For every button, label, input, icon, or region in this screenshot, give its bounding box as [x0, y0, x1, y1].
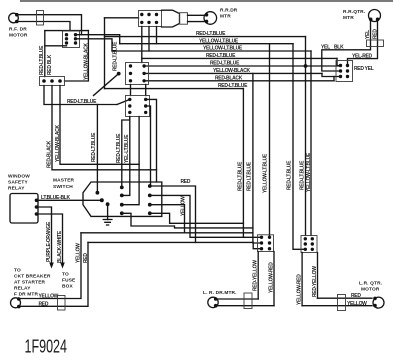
svg-text:YELLOW-RED: YELLOW-RED	[297, 274, 303, 305]
label TO FUSE BOX	[62, 272, 76, 290]
svg-text:RED: RED	[373, 29, 379, 39]
connector C4	[139, 11, 162, 27]
wire motor M1 top to junction	[17, 15, 82, 35]
svg-text:RED BLK: RED BLK	[47, 54, 53, 75]
wire RED from F DR MTR	[19, 242, 88, 306]
wire switch mid pin3 jog up	[122, 117, 139, 205]
connector C1	[63, 31, 80, 48]
inline connector on M4 wires	[244, 293, 252, 309]
wire C4 pin1 down to block A	[141, 27, 143, 63]
wire D1 out left RED-YELLOW	[257, 252, 259, 300]
svg-text:R.R.QTR.: R.R.QTR.	[343, 9, 365, 15]
motor M2 R.R. DR MTR	[188, 12, 217, 25]
wire C4 pin2 down to line3	[148, 27, 150, 52]
wire M5 top RED	[318, 297, 373, 299]
label R.R.QTR MTR	[343, 9, 365, 21]
svg-text:RED: RED	[181, 179, 191, 185]
wire line6 YELLOW-BLACK	[144, 72, 322, 74]
svg-text:RED-YELLOW: RED-YELLOW	[312, 266, 318, 297]
svg-text:1F9024: 1F9024	[25, 337, 68, 357]
svg-text:L.R. QTR.: L.R. QTR.	[359, 281, 382, 287]
wire BLACK-WHITE with arrow	[37, 214, 65, 269]
motor M4 L.R. DR MTR	[208, 297, 218, 307]
svg-text:RED-LT.BLUE: RED-LT.BLUE	[67, 99, 97, 105]
connector block C5	[336, 61, 353, 82]
master switch outline	[83, 182, 162, 216]
motor M1 R.F. DR MOTOR symbol	[9, 13, 19, 23]
wire YELLOW from F DR MTR	[19, 233, 81, 299]
label L.R. QTR. MOTOR	[359, 281, 382, 293]
relay pin 3	[35, 212, 39, 216]
svg-text:RED-LT.BLUE: RED-LT.BLUE	[238, 161, 244, 191]
svg-text:RED: RED	[39, 301, 49, 307]
fan wire from switch pin R3	[150, 205, 185, 233]
inline connector on M1 wires	[37, 11, 44, 26]
diagonal wire from line6 junction	[94, 74, 119, 96]
svg-text:RED: RED	[83, 253, 89, 263]
svg-text:MASTER: MASTER	[53, 178, 75, 184]
fan wire from switch pin R2	[150, 195, 244, 237]
svg-text:YELLOW: YELLOW	[181, 196, 187, 216]
connector block D2 bottom right	[301, 236, 317, 253]
svg-text:CKT BREAKER: CKT BREAKER	[14, 274, 51, 280]
svg-text:RED-LT.BLUE: RED-LT.BLUE	[300, 160, 306, 190]
diagonal wire to block B top pin	[117, 99, 130, 104]
wire line4 RED-LT.BLUE	[142, 57, 337, 59]
wire line4 drop to C5	[337, 58, 341, 65]
svg-text:AT STARTER: AT STARTER	[14, 280, 46, 286]
svg-text:YELLOW-LT.BLUE: YELLOW-LT.BLUE	[263, 153, 269, 193]
wire line7 RED-BLACK	[144, 80, 334, 82]
wire LT.BLUE-BLK	[37, 199, 102, 201]
junction dot line5/w305	[304, 64, 308, 68]
inline connector on F DR wires	[58, 296, 66, 311]
wire horizontal bus y30.6	[45, 30, 89, 32]
wire block B right mid down to switch	[146, 106, 151, 186]
wire PURPLE-ORANGE with arrow	[37, 207, 54, 269]
wire M6 YEL down	[322, 21, 371, 71]
relay pin 2	[35, 205, 39, 209]
wire long vertical w244 RED-LT.BLUE	[243, 89, 261, 238]
switch right column pins	[148, 184, 152, 215]
wire strip pin2 RED-BLACK down	[52, 86, 157, 170]
svg-text:SWITCH: SWITCH	[53, 184, 73, 190]
label R.R.DR MTR	[220, 8, 238, 20]
wire M4 top	[216, 298, 258, 300]
svg-text:RED-LT.BLUE: RED-LT.BLUE	[39, 45, 45, 75]
connector block B	[126, 96, 150, 117]
connector strip S1	[40, 77, 65, 86]
wire block B right top to vertical 156.5	[146, 99, 157, 182]
switch middle column pins	[120, 186, 124, 216]
wire line1 RED-LT.BLUE	[105, 36, 306, 38]
svg-text:R.F. DR: R.F. DR	[9, 27, 27, 33]
wire motor M1 bottom	[17, 22, 70, 31]
connector block D1 bottom center	[258, 235, 274, 252]
svg-text:RED YEL: RED YEL	[354, 66, 374, 72]
wire YELLOW horizontal run	[81, 232, 253, 234]
svg-text:YELLOW-LT.BLUE: YELLOW-LT.BLUE	[203, 46, 243, 52]
wire D1 out right YELLOW-RED	[273, 252, 275, 306]
switch pin L1	[96, 191, 100, 195]
svg-text:MTR: MTR	[343, 15, 354, 21]
wire switch mid pin to block B via jog	[122, 117, 130, 188]
border top line	[20, 0, 393, 2]
svg-text:RED-BLACK: RED-BLACK	[215, 75, 243, 81]
svg-text:F DR MTR: F DR MTR	[14, 292, 38, 298]
svg-text:YELLOW-BLACK: YELLOW-BLACK	[84, 42, 90, 80]
wire switch pin1 vertical RED-LT.BLUE	[96, 105, 98, 193]
wire C1 right mid stub to line3	[76, 39, 113, 51]
switch pin L3 with ground stem	[106, 202, 110, 206]
svg-text:MTR: MTR	[220, 14, 231, 20]
svg-text:TO: TO	[14, 268, 21, 274]
wire M4 bottom	[216, 305, 274, 307]
svg-text:MOTOR: MOTOR	[361, 287, 380, 293]
wire RED horizontal run	[88, 242, 262, 248]
label WINDOW SAFETY RELAY	[8, 174, 30, 192]
ground	[103, 204, 113, 225]
svg-text:YEL-LT.BLUE: YEL-LT.BLUE	[124, 134, 130, 163]
svg-text:RED-BLACK: RED-BLACK	[47, 140, 53, 168]
svg-text:RELAY: RELAY	[14, 286, 31, 292]
fan wire from switch pin R4	[150, 213, 244, 223]
wire block A to block B left	[130, 85, 132, 96]
svg-text:RED-LT.BLUE: RED-LT.BLUE	[206, 53, 236, 59]
wire RED-LT.BLUE vertical left	[44, 31, 46, 77]
svg-text:RED-LT.BLUE: RED-LT.BLUE	[116, 133, 122, 163]
svg-text:RED-LT.BLUE: RED-LT.BLUE	[196, 31, 226, 37]
svg-text:YELLOW: YELLOW	[39, 293, 59, 299]
wire D2 out right RED-YELLOW	[317, 253, 319, 299]
wire long vertical w293 RED-LT.BLUE	[293, 44, 305, 250]
svg-text:YELLOW-RED: YELLOW-RED	[269, 262, 275, 293]
svg-text:YELLOW: YELLOW	[76, 243, 82, 263]
svg-text:RED: RED	[351, 293, 361, 299]
svg-text:YEL-RED: YEL-RED	[352, 53, 373, 59]
wire line6 drop to C5	[322, 73, 341, 76]
node end of LT.BLUE-BLK	[100, 198, 104, 202]
svg-text:RED-YELLOW: RED-YELLOW	[253, 260, 259, 291]
svg-text:WINDOW: WINDOW	[8, 174, 30, 180]
wire block A to block B right	[145, 85, 147, 96]
fan wire from switch pin R1	[150, 186, 196, 242]
svg-text:SAFETY: SAFETY	[8, 180, 28, 186]
motor M5 L.R. QTR MOTOR	[373, 297, 384, 309]
inline connector on M6 wires	[367, 40, 384, 47]
svg-text:YELLOW-LT.BLUE: YELLOW-LT.BLUE	[306, 152, 312, 192]
svg-text:RELAY: RELAY	[8, 186, 25, 192]
svg-text:RED-LT.BLUE: RED-LT.BLUE	[287, 160, 293, 190]
wire YELLOW-BLACK vertical right of C1	[65, 31, 89, 81]
wire line3 YELLOW-LT.BLUE	[112, 50, 311, 52]
wire line7 end	[333, 77, 335, 81]
wire long vertical w252 RED-LT.BLUE	[253, 73, 262, 243]
svg-text:RED-LT.BLUE: RED-LT.BLUE	[210, 61, 240, 67]
svg-text:TO: TO	[62, 272, 69, 278]
svg-text:BLACK-WHITE: BLACK-WHITE	[57, 230, 63, 263]
wire line2 YELLOW-LT.BLUE	[120, 43, 293, 45]
wire M5 bottom YELLOW	[302, 305, 372, 307]
boot inline rect	[180, 13, 188, 25]
svg-text:YELLOW-BLACK: YELLOW-BLACK	[213, 68, 251, 74]
svg-text:LT.BLUE-BLK: LT.BLUE-BLK	[41, 195, 71, 201]
svg-text:YELLOW-LT.BLUE: YELLOW-LT.BLUE	[199, 38, 239, 44]
wire C4 feed horizontal	[105, 17, 139, 19]
wire D2 out left YELLOW-RED	[301, 253, 303, 306]
svg-text:BOX: BOX	[62, 284, 73, 290]
wire R.R.DR feed vertical RED-LT.BLUE	[104, 18, 106, 89]
svg-text:YEL: YEL	[321, 45, 330, 51]
svg-text:L. R. DR.MTR.: L. R. DR.MTR.	[203, 290, 237, 296]
wire M6 RED down	[348, 21, 378, 66]
svg-text:YELLOW-BLACK: YELLOW-BLACK	[55, 124, 61, 162]
window safety relay box	[10, 194, 38, 224]
junction dot on line6	[117, 72, 121, 76]
svg-text:RED-LT.BLUE: RED-LT.BLUE	[91, 132, 97, 162]
svg-text:YELLOW: YELLOW	[347, 301, 367, 307]
wire switch bottom mid pin	[122, 213, 253, 228]
svg-text:RED LT.BLUE: RED LT.BLUE	[247, 161, 253, 191]
svg-text:MOTOR: MOTOR	[9, 33, 28, 39]
wire C1 right top stub to line2	[76, 35, 120, 44]
wire switch mid pin2 to block B bottom	[122, 117, 130, 196]
svg-text:R.R.DR: R.R.DR	[220, 8, 238, 14]
svg-text:FUSE: FUSE	[62, 278, 76, 284]
boot shape of R.R. DR motor connector	[162, 10, 180, 27]
connector block A	[126, 63, 149, 85]
label MASTER SWITCH	[53, 178, 75, 191]
svg-text:BLK: BLK	[334, 45, 344, 51]
svg-text:RED-LT.BLUE: RED-LT.BLUE	[113, 41, 119, 71]
wire strip pin3 YELLOW-BLACK down	[60, 86, 139, 165]
motor M6 R.R. QTR MTR	[369, 10, 381, 22]
wire line8 RED-LT.BLUE	[105, 88, 244, 90]
wire long vertical w305 RED-LT.BLUE	[305, 37, 307, 236]
relay pin 1	[35, 199, 39, 203]
inline connector on M5 wires	[338, 295, 346, 311]
wire C4 pin3 down to line2	[156, 27, 158, 44]
wire strip pin1 down to horizontal RED-LT.BLUE	[44, 86, 117, 105]
wire long vertical w311 YELLOW-LT.BLUE	[310, 51, 312, 236]
label R.F. DR MOTOR	[9, 27, 28, 39]
motor M3 F DR MTR	[11, 297, 21, 308]
wire long vertical w269 YELLOW-LT.BLUE	[269, 44, 271, 238]
svg-text:PURPLE-ORANGE: PURPLE-ORANGE	[46, 221, 52, 262]
wire line5 RED-LT.BLUE	[144, 65, 341, 67]
wire C1 bottom-left pin to left bus	[45, 45, 67, 47]
svg-text:YEL: YEL	[365, 30, 371, 39]
label TO CKT BREAKER AT STARTER RELAY F DR MTR	[14, 268, 51, 298]
